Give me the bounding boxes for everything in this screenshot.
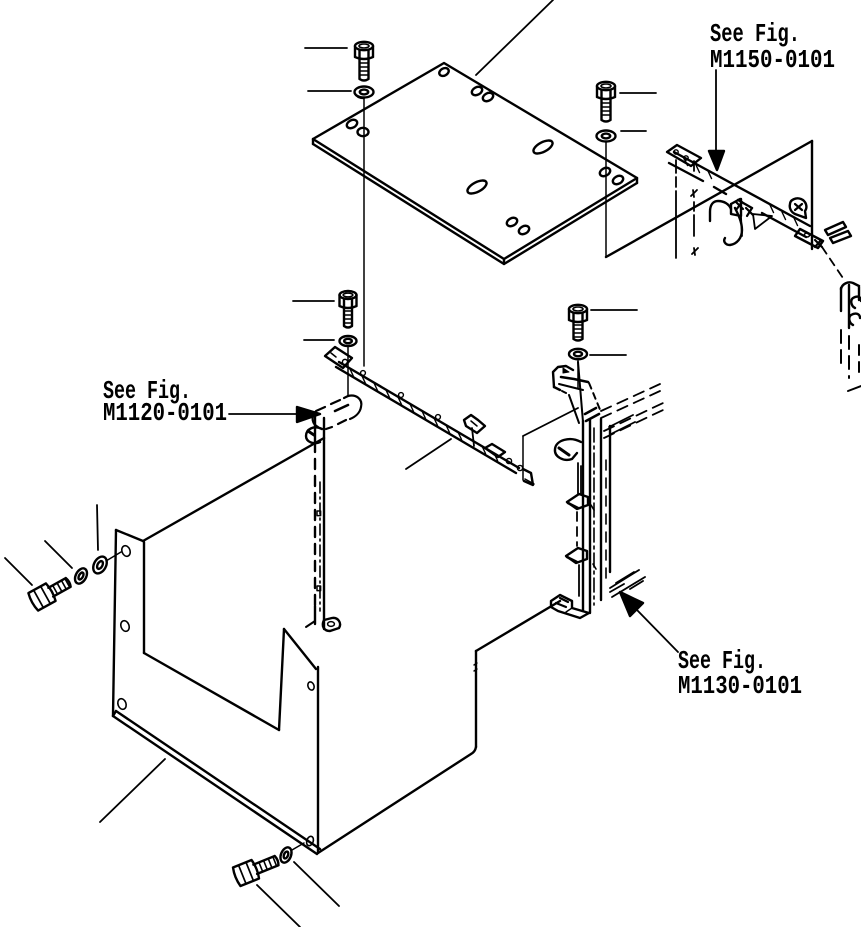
column clip stem lower [578,565,580,596]
M1120 rail mid plate [485,444,505,457]
axis line bolt B4 [577,359,579,388]
long leader line from top edge [476,0,553,75]
bolt B3 middle [340,291,357,328]
lock washer left [73,566,90,585]
leader to bolt B2 head [620,92,656,94]
M1120 rail clip [464,415,485,446]
flat washer left [90,554,109,576]
leader to bolt B5 [5,558,32,585]
rail clip right [790,198,807,218]
plate hole pair left [345,118,368,136]
washer W3 middle [340,336,357,346]
plate slot center [465,178,488,196]
plate hole pair bottom [505,216,530,236]
left panel inner notch [144,542,316,730]
bolt B4 column [569,305,587,341]
text See Fig. M1120 [103,376,227,428]
leader to flat washer [97,505,98,550]
dashed frame rail upper [601,384,660,418]
hatch marks right of foot [610,570,645,597]
transparent panel diagonal [606,141,812,257]
dashed link to lower bracket [822,247,845,281]
M1120 rail right end tab [523,436,534,485]
top cover plate outline [313,63,637,264]
link washer to panel hole [106,552,121,561]
bolt B1 top-left [355,42,373,81]
column clip stem dashes [576,512,578,546]
bolt B2 top-right [597,82,615,122]
M1120 rail bar [336,362,519,473]
plate hole pair upper middle [470,85,494,103]
leader to lock washer [45,541,72,568]
column saddle bracket [553,362,601,423]
leader to washer W2 [621,130,646,132]
column clip middle [567,494,588,509]
transparent panel right edge [811,141,813,249]
M1120 post foot [306,618,340,631]
column clip stem [578,463,581,494]
M1150 rail drop line left [675,160,677,258]
washer W1 top-left [355,87,374,99]
rail clip with screws [731,199,772,236]
column body [583,419,610,613]
text See Fig. M1130 [678,646,802,701]
link washer to panel hole bottom [292,843,304,850]
column clip hook [555,439,581,460]
panel hole bottom [305,835,314,846]
svg-text:M1120-0101: M1120-0101 [103,398,227,428]
back panel top edge [476,601,560,651]
M1120 rail holes [361,371,523,471]
left panel holes [116,544,315,710]
rail right end bracket [795,222,851,248]
solid rail stubs near column [609,415,635,434]
back panel right edge [475,651,477,747]
leader to washer W4 [590,354,626,356]
leader to washer W3 [304,339,334,341]
column face marks [591,505,596,569]
text See Fig. M1150 [710,19,835,75]
M1120 post top sleeve [313,396,362,429]
arrow A1 down to rail [709,70,724,170]
leader to washer bottom [294,862,339,906]
screw mark upper [691,190,697,197]
plate hole pair right [598,166,624,186]
bolt B5 left angled [27,573,74,611]
leader to bolt B6 [257,885,300,927]
plate hole near top corner [438,66,450,77]
leader to M1120 rail [406,439,451,469]
leader to bolt B1 head [305,47,347,49]
svg-text:M1150-0101: M1150-0101 [710,45,835,75]
M1120 rail left tab [325,347,352,368]
hook clip on rail [710,201,742,245]
back panel bottom edge [318,747,476,853]
left panel outline [113,438,324,854]
plate slot right [531,138,554,156]
dashed frame rail lower [604,403,663,438]
axis line bolt B1 [363,98,365,366]
axis line bolt B2 [605,142,607,257]
M1150 rail left end tab [667,145,701,166]
washer W4 column [569,349,587,359]
arrow A3 up-left to column base [620,592,678,652]
svg-text:M1130-0101: M1130-0101 [678,671,802,701]
M1150 rail drop line right [693,161,695,236]
axis line bolt B3 [347,346,349,396]
washer bottom [278,846,293,865]
screw mark lower [692,248,698,255]
M1150 rail bar [669,152,810,237]
washer W2 top-right [597,131,616,142]
M1120 post holes [317,511,321,591]
leader to washer W1 [308,90,351,92]
back panel edge tick [474,663,477,671]
far right bracket [841,282,861,391]
arrow A2 right to post [229,407,320,422]
column foot [551,595,589,618]
leader to bolt B4 head [591,309,637,311]
M1120 post hook [306,427,322,443]
bolt B6 bottom angled [232,851,281,886]
leader to bolt B3 head [293,300,334,302]
link line rail to column saddle [523,408,578,436]
M1120 post body [315,413,324,629]
leader to panel bottom edge [100,759,165,822]
column clip lower [566,548,587,563]
